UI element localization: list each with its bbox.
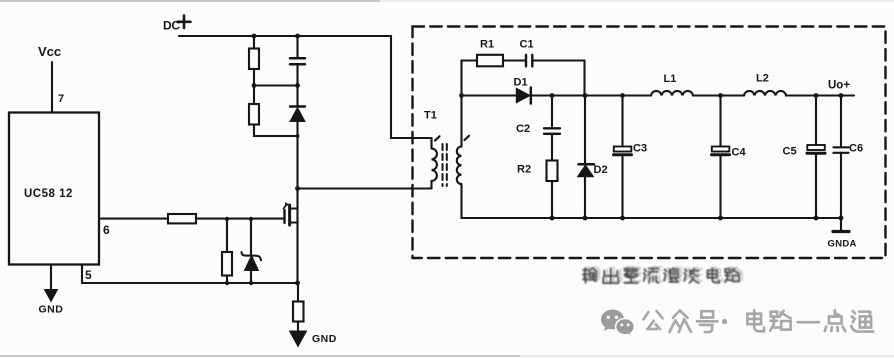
resistor Rs bbox=[297, 283, 299, 332]
svg-text:7: 7 bbox=[58, 93, 64, 105]
svg-text:C3: C3 bbox=[633, 143, 647, 155]
capacitor C4 bbox=[719, 96, 721, 219]
svg-text:Vcc: Vcc bbox=[38, 44, 61, 59]
resistor R4 bbox=[226, 219, 228, 283]
wire pin 6 bbox=[99, 218, 285, 220]
svg-text:L2: L2 bbox=[756, 73, 769, 85]
diode D1 bbox=[516, 88, 530, 103]
wire Vcc to pin 7 bbox=[51, 62, 53, 113]
svg-text:C5: C5 bbox=[783, 146, 797, 158]
svg-text:GND: GND bbox=[39, 304, 64, 316]
capacitor Csn bbox=[296, 36, 298, 86]
transistor Q1 bbox=[283, 210, 285, 223]
svg-text:C2: C2 bbox=[516, 123, 530, 135]
wire drain to T1 bbox=[298, 187, 432, 189]
resistor R2 bbox=[547, 161, 558, 182]
snubber branch R1 C1 bbox=[462, 61, 585, 96]
svg-text:GNDA: GNDA bbox=[828, 239, 857, 250]
capacitor C5 bbox=[815, 96, 817, 219]
capacitor C6 bbox=[840, 96, 842, 219]
wire DC to T1 bbox=[391, 36, 432, 138]
polarity dot primary bbox=[435, 136, 440, 140]
resistor R gate bbox=[168, 214, 196, 223]
watermark text 公众号·电路一点通 bbox=[644, 310, 874, 332]
capacitor C2 bbox=[551, 96, 553, 161]
svg-text:D2: D2 bbox=[594, 164, 608, 176]
zener D3 bbox=[250, 219, 252, 283]
dashed box output section bbox=[413, 27, 886, 259]
inductor L1 bbox=[651, 91, 693, 96]
capacitor C1 plates bbox=[526, 55, 532, 67]
svg-text:C6: C6 bbox=[849, 143, 863, 155]
caption 输出整流滤波电路 blurred bbox=[583, 268, 739, 283]
wire bottom rail left bbox=[82, 282, 298, 284]
wire drain bbox=[296, 189, 298, 284]
resistor R1a bbox=[253, 36, 255, 86]
polarity dot secondary bbox=[465, 136, 470, 140]
ground GNDA bbox=[840, 218, 842, 231]
ground source bbox=[290, 331, 307, 347]
svg-text:UC58 12: UC58 12 bbox=[24, 188, 73, 200]
svg-text:DC: DC bbox=[163, 19, 180, 33]
svg-text:L1: L1 bbox=[664, 73, 677, 85]
svg-text:R1: R1 bbox=[480, 39, 494, 51]
wire cross bbox=[254, 84, 298, 86]
inductor L2 bbox=[744, 91, 787, 96]
label DC+ plus sign bbox=[178, 16, 191, 29]
svg-text:D1: D1 bbox=[514, 77, 528, 89]
diode D2 bbox=[584, 96, 586, 219]
wire pin 5 bbox=[81, 265, 83, 284]
svg-text:C1: C1 bbox=[520, 39, 534, 51]
transformer T1 primary bbox=[430, 138, 432, 149]
svg-text:Uo+: Uo+ bbox=[828, 80, 850, 92]
ground IC bbox=[50, 265, 52, 291]
svg-text:C4: C4 bbox=[732, 147, 747, 159]
wire output bottom rail bbox=[462, 217, 842, 219]
wire output top rail bbox=[462, 94, 855, 96]
svg-text:5: 5 bbox=[85, 268, 92, 282]
transformer core bbox=[442, 144, 444, 186]
wire DC+ rail bbox=[179, 35, 391, 37]
diode Dsn bbox=[296, 86, 298, 189]
svg-text:GND: GND bbox=[312, 333, 337, 345]
svg-text:6: 6 bbox=[103, 223, 110, 237]
transformer T1 secondary bbox=[460, 96, 462, 147]
svg-text:R2: R2 bbox=[517, 164, 531, 176]
watermark wechat logo bbox=[601, 310, 634, 337]
IC U1 box bbox=[9, 113, 99, 265]
resistor R1b bbox=[254, 86, 298, 137]
capacitor C3 bbox=[621, 96, 623, 219]
svg-text:T1: T1 bbox=[424, 110, 437, 122]
